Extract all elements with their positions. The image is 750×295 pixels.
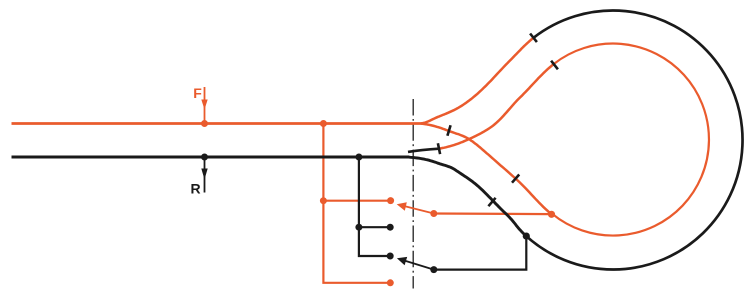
lower inner rail orange S-curve bbox=[421, 124, 552, 215]
switch S1 contact c1 bbox=[387, 197, 394, 204]
switch S1 pole p1 bbox=[430, 210, 437, 217]
frog stub rail black bbox=[408, 149, 439, 152]
wire: orange branch to upper switch contact bbox=[323, 200, 390, 202]
node: F feeder junction bbox=[201, 120, 208, 127]
svg-text:F: F bbox=[193, 85, 202, 101]
orange main rail F bbox=[12, 122, 422, 125]
gap tick T4 frog stub end bbox=[438, 143, 440, 154]
switch S1 lever arrow bbox=[404, 206, 434, 214]
black main rail R bbox=[12, 156, 410, 159]
node: orange feeder on inner loop rail bbox=[548, 211, 555, 218]
wire: black feeder drop from R rail bbox=[359, 157, 390, 256]
gap tick T6 lower outer bbox=[488, 198, 495, 206]
upper inner rail orange S-curve bbox=[439, 64, 554, 149]
R arrow bbox=[204, 157, 206, 193]
inner loop rail orange arc bbox=[552, 44, 709, 236]
wire: orange pole to loop inner rail bbox=[434, 212, 552, 215]
switch S2 lever arrow bbox=[404, 260, 434, 269]
gap tick T3 lower inner near frog bbox=[447, 125, 450, 136]
section boundary centerline bbox=[412, 99, 414, 289]
switch S1 contact c2 bbox=[387, 224, 394, 231]
node: orange feeder tap on F rail bbox=[320, 120, 327, 127]
lower outer rail black S-curve bbox=[407, 157, 525, 235]
gap tick T5 lower inner bbox=[512, 175, 519, 183]
wire: black pole to loop outer rail bbox=[434, 236, 527, 270]
node: black wire junction bbox=[355, 224, 362, 231]
switch S2 contact c4 bbox=[387, 279, 394, 286]
node: black feeder on outer loop rail bbox=[523, 233, 530, 240]
outer loop rail black arc bbox=[525, 11, 743, 270]
gap tick T2 upper inner bbox=[551, 61, 558, 70]
F arrow bbox=[204, 87, 206, 123]
wire: orange feeder drop from F rail bbox=[323, 124, 389, 283]
node: black feeder tap on R rail bbox=[355, 154, 362, 161]
node: orange wire junction bbox=[320, 197, 327, 204]
wire: black branch to upper switch contact bbox=[359, 226, 390, 228]
node: R feeder junction bbox=[201, 154, 208, 161]
upper outer rail orange S-curve bbox=[421, 38, 534, 124]
switch S2 pole p2 bbox=[430, 266, 437, 273]
gap tick T1 upper outer bbox=[530, 34, 537, 43]
svg-text:R: R bbox=[190, 181, 200, 197]
switch S2 contact c3 bbox=[387, 253, 394, 260]
